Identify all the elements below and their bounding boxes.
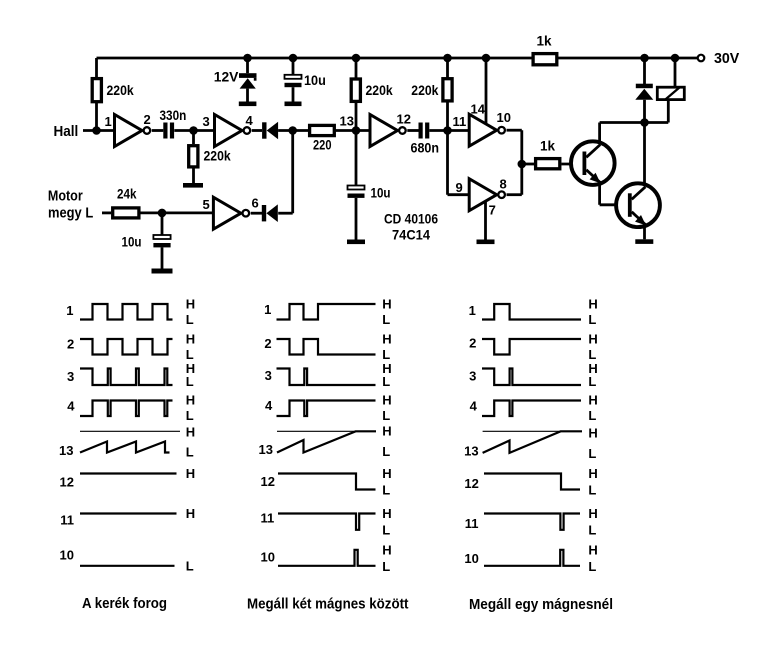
svg-text:9: 9 (456, 180, 463, 195)
svg-text:14: 14 (471, 102, 486, 117)
svg-text:12: 12 (397, 112, 411, 127)
svg-text:13: 13 (464, 444, 478, 459)
svg-text:220: 220 (313, 138, 332, 153)
svg-text:L: L (382, 374, 390, 389)
svg-text:3: 3 (203, 114, 210, 129)
svg-text:L: L (186, 445, 194, 460)
svg-text:CD 40106: CD 40106 (384, 212, 438, 227)
svg-text:12: 12 (60, 475, 74, 490)
svg-text:680n: 680n (411, 141, 440, 156)
svg-text:24k: 24k (117, 187, 137, 202)
svg-text:L: L (382, 483, 390, 498)
svg-text:L: L (382, 523, 390, 538)
svg-text:5: 5 (203, 197, 210, 212)
svg-text:L: L (382, 347, 390, 362)
svg-text:2: 2 (144, 112, 151, 127)
svg-text:H: H (186, 506, 195, 521)
svg-text:12: 12 (261, 474, 275, 489)
svg-text:220k: 220k (411, 83, 439, 98)
svg-text:H: H (186, 425, 195, 440)
svg-text:10: 10 (464, 551, 478, 566)
svg-text:L: L (588, 408, 596, 423)
svg-text:11: 11 (260, 511, 274, 526)
svg-text:1: 1 (66, 303, 73, 318)
svg-text:74C14: 74C14 (392, 228, 430, 243)
svg-text:12: 12 (464, 476, 478, 491)
svg-text:1k: 1k (540, 139, 556, 154)
svg-text:4: 4 (470, 399, 478, 414)
svg-text:H: H (588, 332, 597, 347)
svg-text:13: 13 (259, 442, 273, 457)
svg-text:Megáll egy mágnesnél: Megáll egy mágnesnél (469, 597, 613, 613)
svg-text:H: H (186, 393, 195, 408)
svg-text:1: 1 (264, 302, 271, 317)
svg-text:H: H (588, 297, 597, 312)
svg-text:220k: 220k (204, 149, 232, 164)
svg-text:1: 1 (105, 114, 112, 129)
svg-text:12V: 12V (214, 70, 239, 85)
svg-text:Megáll két mágnes között: Megáll két mágnes között (247, 597, 409, 613)
svg-text:1: 1 (469, 303, 476, 318)
svg-text:H: H (588, 426, 597, 441)
svg-text:220k: 220k (107, 83, 135, 98)
svg-text:L: L (588, 559, 596, 574)
svg-text:2: 2 (469, 336, 476, 351)
svg-text:4: 4 (246, 113, 254, 128)
svg-text:megy L: megy L (48, 205, 93, 221)
svg-text:30V: 30V (714, 51, 740, 67)
svg-text:11: 11 (453, 114, 467, 129)
svg-text:L: L (382, 312, 390, 327)
svg-text:4: 4 (67, 399, 75, 414)
svg-text:H: H (382, 423, 391, 438)
svg-text:10: 10 (60, 548, 74, 563)
svg-text:H: H (588, 393, 597, 408)
svg-text:330n: 330n (160, 108, 187, 123)
svg-text:Motor: Motor (48, 188, 83, 204)
svg-text:L: L (588, 347, 596, 362)
svg-text:A kerék forog: A kerék forog (82, 596, 167, 612)
svg-text:L: L (382, 559, 390, 574)
svg-text:11: 11 (60, 513, 74, 528)
svg-text:L: L (588, 312, 596, 327)
svg-text:8: 8 (500, 177, 507, 192)
svg-text:H: H (382, 466, 391, 481)
svg-text:H: H (382, 297, 391, 312)
svg-text:H: H (588, 506, 597, 521)
svg-text:H: H (382, 332, 391, 347)
svg-text:L: L (186, 559, 194, 574)
svg-text:H: H (382, 393, 391, 408)
svg-text:L: L (382, 408, 390, 423)
svg-text:6: 6 (252, 196, 259, 211)
svg-text:H: H (382, 506, 391, 521)
svg-text:4: 4 (265, 398, 273, 413)
svg-text:7: 7 (489, 203, 496, 218)
svg-text:220k: 220k (366, 83, 394, 98)
svg-text:3: 3 (469, 369, 476, 384)
svg-text:10: 10 (261, 550, 275, 565)
svg-text:L: L (382, 444, 390, 459)
svg-text:L: L (186, 312, 194, 327)
svg-text:H: H (186, 466, 195, 481)
svg-text:L: L (588, 374, 596, 389)
svg-text:2: 2 (264, 336, 271, 351)
svg-text:L: L (186, 347, 194, 362)
svg-text:L: L (588, 483, 596, 498)
svg-text:L: L (186, 374, 194, 389)
svg-text:3: 3 (67, 369, 74, 384)
svg-text:3: 3 (265, 368, 272, 383)
svg-text:10u: 10u (371, 186, 391, 201)
svg-text:H: H (382, 543, 391, 558)
svg-text:10u: 10u (304, 73, 326, 88)
svg-text:L: L (186, 408, 194, 423)
svg-text:H: H (588, 466, 597, 481)
svg-text:L: L (588, 446, 596, 461)
svg-text:L: L (588, 523, 596, 538)
svg-text:Hall: Hall (54, 124, 79, 140)
svg-text:H: H (588, 543, 597, 558)
svg-text:13: 13 (340, 114, 354, 129)
svg-text:13: 13 (59, 443, 73, 458)
svg-text:H: H (186, 332, 195, 347)
svg-text:1k: 1k (537, 34, 553, 49)
svg-text:10: 10 (497, 110, 511, 125)
svg-text:2: 2 (67, 337, 74, 352)
svg-text:11: 11 (465, 516, 479, 531)
svg-text:10u: 10u (122, 235, 142, 250)
svg-text:H: H (186, 297, 195, 312)
